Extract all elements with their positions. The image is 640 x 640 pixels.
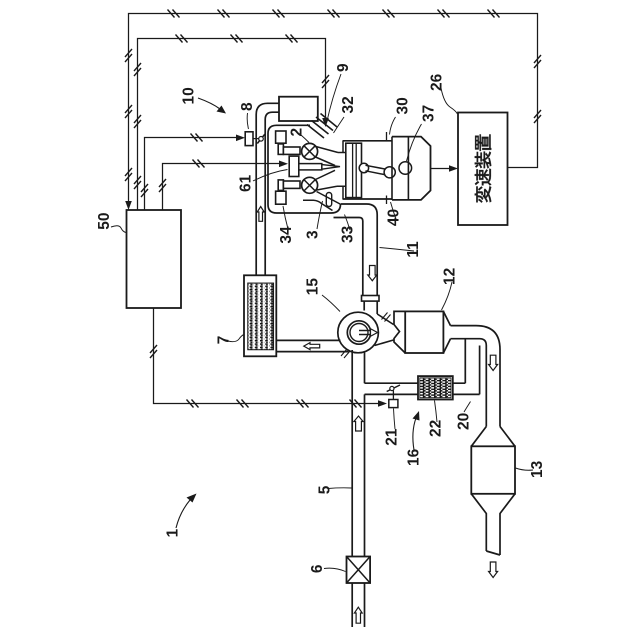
wire break where W5 crosses intake pipe 5 — [350, 400, 362, 408]
fuel injector 61 tip — [322, 165, 340, 170]
exhaust valve actuator 34 rect — [276, 191, 286, 204]
wire break marks on W3 — [191, 134, 203, 142]
arrowhead W2 at injector 9 — [322, 118, 329, 127]
arrowhead W1 into ECU 50 — [125, 201, 132, 210]
intercooler 7 body — [244, 275, 276, 356]
turbo shaft arrow tip — [371, 329, 378, 337]
arrowhead W5 at EGR valve 21 — [378, 400, 387, 407]
spark plug slot in head — [326, 193, 331, 207]
pipe break marks on turbine outlet — [382, 313, 391, 322]
transmission kanji 変 — [475, 186, 492, 203]
intake valve stem bar — [283, 147, 300, 154]
arrow leader 10 — [198, 98, 220, 109]
wire break marks on W1 right — [534, 55, 541, 68]
leader 15 — [322, 295, 340, 312]
leader 22 — [435, 401, 438, 423]
intake valve actuator stem — [278, 144, 283, 155]
flow arrow up in intake pipe — [257, 207, 264, 222]
arrowhead W3 at actuator 8 — [236, 135, 245, 142]
leader 8 — [247, 113, 248, 129]
transmission kanji 置 — [475, 134, 491, 151]
throttle shaft link to actuator 8 — [253, 138, 259, 140]
combustion chamber pent-roof walls — [314, 146, 346, 191]
catalyst 12 inlet cone with notch — [394, 311, 405, 353]
leader 2 — [301, 135, 309, 143]
engine head cover outline — [268, 125, 341, 213]
intake valve actuator 34a rect — [276, 131, 286, 143]
leader 9 — [327, 74, 341, 122]
EGR valve 21 blade — [387, 385, 400, 392]
throttle shaft circle — [259, 137, 264, 142]
exhaust pipe 11: engine to turbine — [341, 204, 377, 296]
catalyst 12 body — [405, 311, 443, 353]
flow arrow up at intake inlet — [354, 607, 362, 623]
svg-text:11: 11 — [405, 241, 422, 258]
svg-text:33: 33 — [340, 225, 357, 243]
turbo shaft — [359, 331, 372, 335]
svg-text:21: 21 — [383, 428, 400, 446]
svg-text:34: 34 — [278, 226, 295, 244]
svg-text:8: 8 — [239, 102, 256, 111]
EGR takeoff pipe vertical — [465, 339, 479, 395]
arrow leader 1 — [176, 500, 190, 528]
svg-text:16: 16 — [406, 448, 423, 466]
intake runner diagonal walls — [307, 114, 337, 139]
connecting rod — [366, 165, 388, 175]
air cleaner 6 box — [347, 557, 371, 584]
ECU box 50 — [127, 210, 182, 308]
wire W2: ECU 50 to injector arrow 9 — [138, 39, 326, 211]
svg-text:12: 12 — [442, 268, 459, 285]
exhaust valve actuator stem — [278, 180, 283, 191]
svg-text:50: 50 — [96, 213, 113, 230]
catalyst 12 outlet cone — [443, 311, 450, 353]
leader 30 — [390, 117, 396, 135]
intake inlet pipe below air cleaner — [352, 583, 364, 627]
svg-text:13: 13 — [529, 460, 546, 478]
leader 5 — [328, 487, 352, 490]
throttle valve blade in intake pipe — [257, 134, 265, 143]
surge tank 2 (plenum box) — [279, 97, 318, 121]
cylinder head deck line — [342, 141, 344, 199]
crank pin circle — [384, 167, 395, 178]
pipe from flange to turbo — [364, 301, 377, 314]
svg-text:2: 2 — [289, 128, 306, 137]
flow arrow left in compressor outlet pipe — [304, 343, 320, 350]
leader 32 — [334, 117, 345, 133]
compressor outlet pipe to cooler 7 — [276, 340, 348, 351]
pipe break marks near compressor — [341, 349, 350, 358]
leader 7 — [228, 335, 244, 342]
svg-text:9: 9 — [335, 63, 352, 72]
tail pipe tip cut — [486, 551, 500, 555]
intercooler core dividers — [253, 284, 268, 350]
piston — [346, 143, 362, 197]
wire break marks on W1 top — [168, 10, 180, 18]
svg-text:5: 5 — [316, 485, 333, 494]
leader 50 — [111, 226, 126, 233]
svg-text:6: 6 — [309, 564, 326, 573]
leader 12 — [442, 282, 453, 310]
block joint tick marks — [386, 132, 388, 204]
leader 20 — [464, 402, 471, 413]
air cleaner X diagonals — [347, 557, 371, 584]
crankcase joint lines — [392, 137, 408, 200]
intercooler 7 core hatch — [248, 283, 274, 350]
muffler 13 body — [471, 446, 515, 494]
turbine inlet flange — [362, 296, 380, 302]
svg-text:15: 15 — [305, 278, 322, 296]
wire W5: ECU 50 to EGR valve 21 — [154, 308, 381, 404]
EGR valve 21 actuator box — [389, 400, 398, 408]
transmission box 26 — [458, 113, 508, 226]
leader 33 — [345, 215, 351, 231]
muffler 13 inlet cone — [471, 427, 515, 447]
wire break marks on W2 — [134, 63, 141, 76]
cylinder bore walls — [343, 141, 393, 199]
wire W1 outer: ECU 50 to transmission 26 loop — [129, 14, 538, 203]
svg-text:7: 7 — [215, 336, 232, 345]
leader 61 — [253, 170, 288, 182]
svg-text:30: 30 — [394, 97, 411, 114]
EGR valve 21 shaft circle — [390, 386, 394, 390]
EGR cooler 22 body — [418, 376, 453, 399]
turbo inner ring — [347, 321, 370, 344]
wire W7: engine crankshaft to transmission — [431, 168, 452, 170]
svg-text:3: 3 — [305, 230, 322, 239]
intake pipe: cooler 7 to surge tank (vertical with elbow) — [256, 103, 279, 275]
transmission kanji 装 — [475, 151, 492, 168]
svg-text:1: 1 — [165, 528, 182, 537]
transmission kanji 速 — [475, 169, 492, 186]
muffler 13 outlet cone — [471, 494, 515, 555]
exhaust outlet pipe with elbow down — [451, 326, 501, 427]
leader 21 — [394, 409, 396, 430]
svg-text:37: 37 — [421, 105, 438, 122]
piston ring lines — [353, 143, 357, 197]
EGR cooler 22 hatch — [420, 378, 451, 398]
svg-text:61: 61 — [238, 174, 255, 192]
turbine outlet diagonals — [375, 314, 394, 346]
crankcase 30 outline — [392, 137, 431, 200]
leader 6 — [324, 568, 346, 571]
intake valve spring circle with X — [302, 143, 318, 159]
svg-text:32: 32 — [340, 96, 357, 113]
svg-text:26: 26 — [429, 73, 446, 91]
fuel injector 61 nozzle bar — [299, 164, 322, 170]
leader 3 — [317, 201, 323, 229]
flow arrow up in pipe 5 mid — [354, 416, 363, 431]
leader 40 — [391, 202, 397, 219]
turbocharger 15 compressor scroll circle — [338, 312, 379, 353]
exhaust valve spring circle with X — [302, 177, 318, 193]
intake pipe 5 vertical — [352, 350, 364, 557]
crank main journal circle 37 — [399, 162, 412, 175]
flow arrow down in exhaust downpipe — [489, 355, 498, 370]
fuel injector 61 body — [289, 156, 299, 176]
svg-text:10: 10 — [181, 87, 198, 104]
leader 34 — [283, 206, 288, 229]
wire W4: ECU 50 to fuel injector 61 — [163, 164, 282, 211]
arrowhead W4 at injector 61 — [279, 161, 288, 168]
leader 13 — [516, 468, 534, 470]
flow arrow down at tailpipe — [489, 562, 498, 578]
exhaust runner walls — [303, 192, 341, 211]
svg-text:22: 22 — [427, 420, 444, 437]
leader 11 — [380, 248, 415, 252]
throttle actuator 8 — [245, 132, 253, 146]
EGR valve 21 stem — [392, 391, 394, 400]
wire break marks on W4 — [193, 160, 205, 168]
flow arrow down in pipe 11 — [368, 266, 377, 281]
arrowhead W7 into transmission — [449, 165, 458, 172]
piston pin circle — [359, 163, 368, 172]
exhaust valve stem bar — [283, 181, 300, 188]
arrow leader 16 — [413, 418, 416, 450]
svg-text:20: 20 — [455, 413, 472, 430]
leader 37 — [407, 124, 422, 161]
wire break marks on W1 left — [125, 49, 132, 62]
leader 26 — [441, 88, 458, 114]
EGR pipe horizontal — [365, 383, 480, 394]
wire break marks on W5 — [150, 345, 157, 358]
wire W3: ECU 50 to throttle actuator 8 — [145, 138, 239, 211]
